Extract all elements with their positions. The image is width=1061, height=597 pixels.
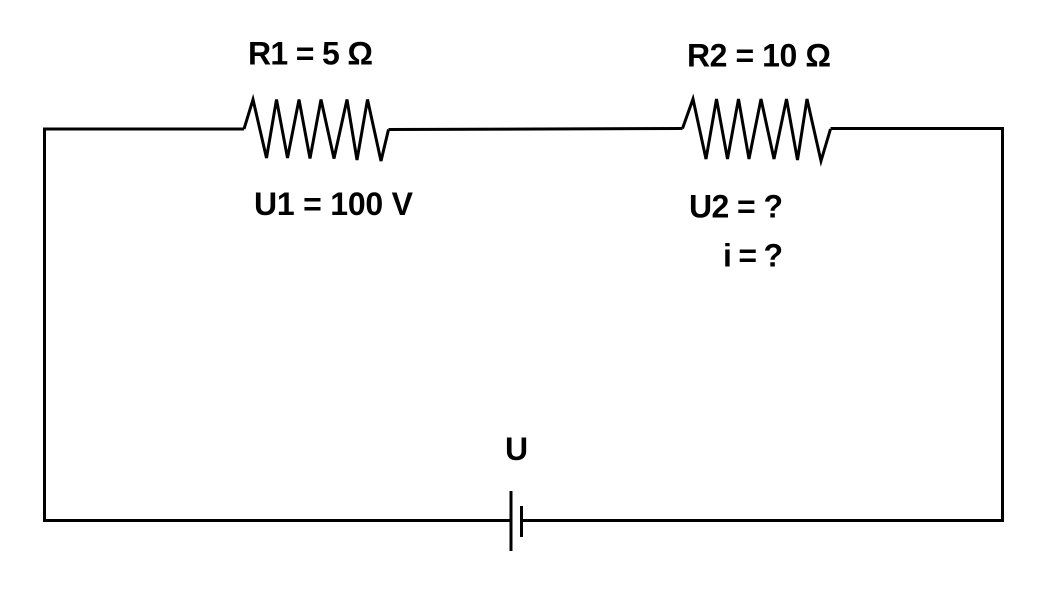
wire top left segment <box>43 128 244 131</box>
svg-text:R1 = 5 Ω: R1 = 5 Ω <box>248 36 373 72</box>
wire top right segment <box>831 127 1005 130</box>
wire bottom left segment <box>43 519 510 522</box>
svg-text:U2 = ?: U2 = ? <box>689 189 783 225</box>
wire top middle segment <box>389 129 683 130</box>
resistor R2 <box>683 99 831 161</box>
battery U short plate <box>520 506 523 537</box>
resistor R1 <box>244 100 389 162</box>
wire bottom right segment <box>523 519 1004 522</box>
battery U long plate <box>510 491 513 551</box>
svg-text:R2 = 10 Ω: R2 = 10 Ω <box>687 38 831 74</box>
svg-text:U: U <box>505 431 528 467</box>
svg-text:i = ?: i = ? <box>723 238 783 274</box>
wire right vertical side <box>1001 129 1004 521</box>
svg-text:U1 = 100 V: U1 = 100 V <box>254 186 414 222</box>
wire left vertical side <box>43 129 46 520</box>
